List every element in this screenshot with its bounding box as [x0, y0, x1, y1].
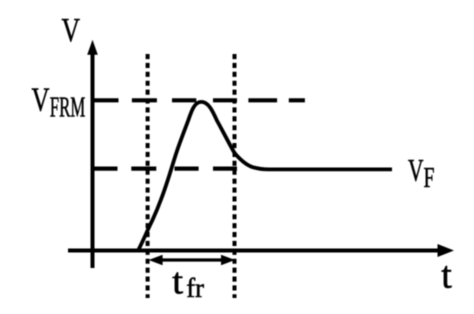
- label VF: [408, 153, 435, 194]
- svg-text:fr: fr: [186, 273, 204, 303]
- dashed level line VFRM: [91, 98, 305, 102]
- svg-text:V: V: [62, 12, 81, 49]
- svg-text:V: V: [408, 153, 424, 188]
- dimension arrow tfr: [149, 255, 235, 265]
- label tfr: [172, 261, 204, 303]
- x-axis t: [68, 244, 454, 257]
- svg-text:F: F: [424, 162, 435, 194]
- svg-text:t: t: [441, 255, 452, 297]
- svg-text:t: t: [172, 261, 184, 302]
- label VFRM: [32, 81, 86, 123]
- dotted time marker t1: [146, 54, 150, 298]
- waveform curve: [138, 102, 392, 251]
- dotted time marker t2: [233, 54, 237, 298]
- y-axis V: [87, 40, 98, 268]
- dashed level line VF: [91, 167, 237, 171]
- svg-text:V: V: [32, 81, 50, 118]
- svg-text:FRM: FRM: [50, 93, 86, 124]
